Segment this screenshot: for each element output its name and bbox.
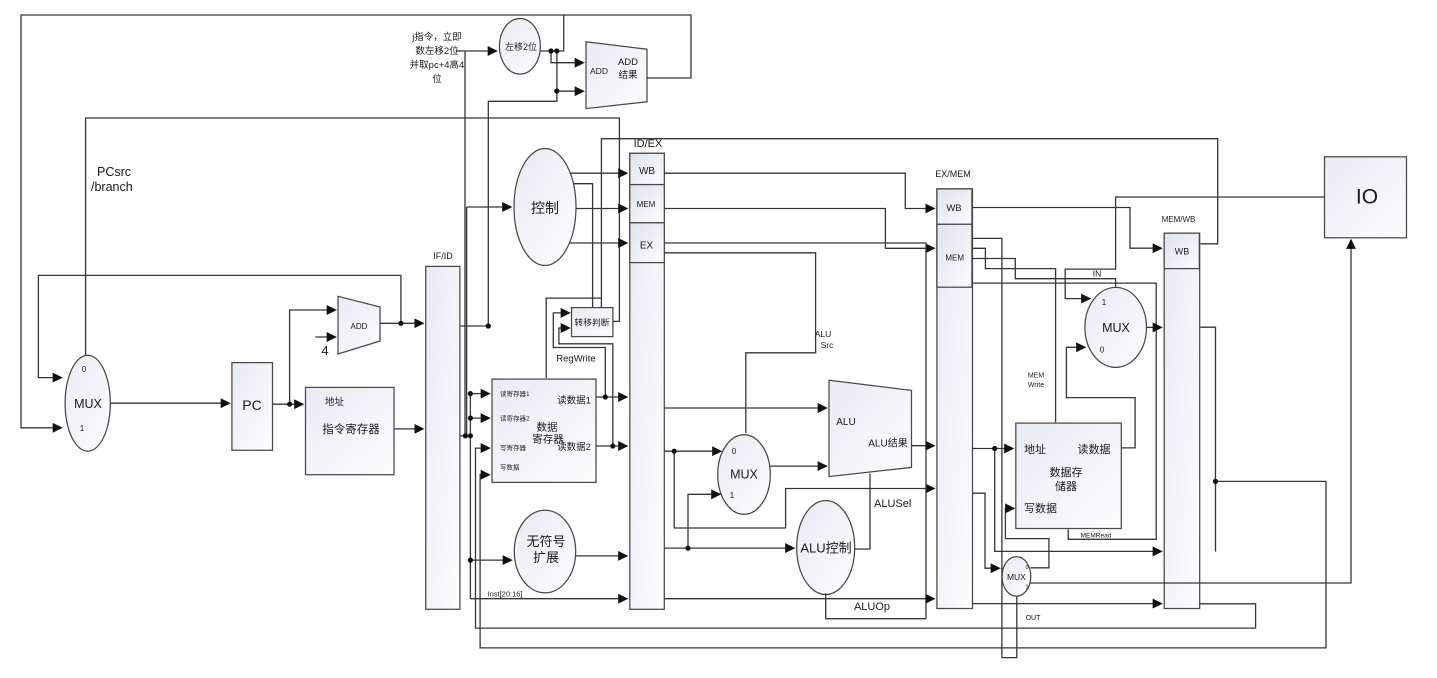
wire: PC to instruction memory (273, 403, 304, 405)
svg-text:读数据: 读数据 (1078, 442, 1111, 456)
wire: IF/ID PC+4 tap (460, 325, 488, 327)
ID/EX section EX (630, 223, 665, 263)
svg-text:并取pc+4高4: 并取pc+4高4 (410, 59, 465, 71)
wire: ALU result copy from EX/MEM to MEM/WB (995, 449, 1162, 552)
svg-text:地址: 地址 (325, 396, 345, 408)
alu ALU (829, 380, 912, 476)
wire: 左移2位 output (540, 15, 563, 51)
svg-text:IF/ID: IF/ID (433, 251, 453, 261)
EX/MEM section WB (937, 189, 972, 224)
pipeline register EX/MEM (937, 189, 973, 609)
svg-text:0: 0 (732, 447, 737, 456)
svg-text:1: 1 (1102, 298, 1107, 307)
register PC (232, 363, 273, 451)
wire: MEM bundle ID/EX to EX/MEM (664, 209, 934, 249)
alu control ALU控制 (797, 501, 855, 595)
svg-text:/branch: /branch (91, 180, 133, 194)
wire: EX/MEM ALU result copy to MEM/WB (973, 238, 1017, 657)
wire: WB feedback across top rectangle to 转移判断 (601, 139, 1217, 308)
svg-text:IO: IO (1356, 186, 1378, 209)
svg-text:MUX: MUX (1007, 572, 1026, 582)
svg-text:MUX: MUX (1102, 321, 1130, 335)
svg-text:数据: 数据 (537, 421, 558, 434)
wire: instruction memory output into IF/ID (394, 428, 423, 430)
wire: read data 1 hook into 转移判断 (553, 313, 605, 397)
register file 数据寄存器 (492, 379, 596, 482)
svg-text:ALUOp: ALUOp (854, 601, 890, 613)
mux M1 (PC source) (65, 355, 110, 451)
svg-text:数左移2位: 数左移2位 (415, 45, 459, 57)
pipeline register IF/ID (426, 266, 460, 609)
svg-text:MEMRead: MEMRead (1081, 533, 1112, 540)
wire: MemtoReg control to MUX top (972, 259, 1116, 287)
svg-text:RegWrite: RegWrite (556, 354, 595, 365)
wire: MUX output to PC (110, 402, 229, 404)
svg-text:位: 位 (432, 73, 442, 85)
ID/EX section WB (630, 153, 665, 184)
svg-text:无符号: 无符号 (526, 534, 565, 549)
EX/MEM section MEM (937, 224, 972, 287)
svg-text:ID/EX: ID/EX (634, 138, 663, 150)
wire: output MUX to IO (1030, 240, 1352, 583)
io port IO (1325, 157, 1407, 238)
wire: ALU result to data memory address (972, 448, 1013, 450)
control unit 控制 (514, 149, 576, 266)
svg-text:0: 0 (1100, 346, 1105, 355)
wire: immediate out of ID/EX to ALU控制 (664, 547, 794, 549)
svg-text:写数据: 写数据 (500, 463, 520, 472)
svg-text:j指令，立即: j指令，立即 (411, 31, 462, 43)
svg-text:OUT: OUT (1026, 615, 1042, 622)
instruction memory 指令寄存器 (306, 387, 395, 474)
svg-text:MEM: MEM (637, 200, 656, 209)
wire: ALUSrc control path down to MUX top (664, 253, 815, 433)
svg-text:1: 1 (730, 491, 735, 500)
svg-text:读数据1: 读数据1 (557, 395, 591, 407)
svg-text:PC: PC (242, 397, 261, 413)
svg-text:写寄存器: 写寄存器 (500, 443, 527, 452)
wire: IO IN path to MUX input 1 (1065, 197, 1324, 299)
svg-text:储器: 储器 (1055, 479, 1077, 493)
wire: store data into data memory (973, 493, 1000, 568)
wire: MEM/WB WB output vertical (1200, 327, 1215, 551)
wire: PC to ADD upper input (290, 310, 336, 404)
wire: EX/MEM WB bundle to MEM/WB (972, 208, 1162, 249)
wire: read data 1 out of ID/EX to ALU (664, 407, 826, 409)
wire: MUX output to MEM/WB (1147, 326, 1162, 328)
svg-text:指令寄存器: 指令寄存器 (322, 422, 380, 436)
pipeline register MEM/WB (1164, 233, 1200, 608)
wire: MUX4 tap to data memory write data (1005, 508, 1049, 567)
svg-text:EX/MEM: EX/MEM (935, 169, 971, 179)
wire: to read register 2 (470, 417, 489, 419)
shifter 左移2位 (499, 19, 540, 75)
svg-text:ALU控制: ALU控制 (800, 541, 851, 556)
wire: bottom line into MEM/WB (972, 603, 1162, 605)
wire: PCsrc/branch from 转移判断 to MUX select (86, 118, 620, 356)
wire: 控制 EX output to ID/EX (570, 242, 627, 244)
wire: constant 4 into ADD (315, 336, 335, 338)
pipeline register ID/EX (630, 153, 665, 609)
wire: store data bypass to EX/MEM (674, 451, 934, 528)
wire: WB bundle ID/EX to EX/MEM (664, 173, 934, 208)
wire: read data 2 hook into 转移判断 (559, 328, 613, 446)
wire: j-instruction branch up to 左移2位 (464, 51, 466, 436)
svg-text:Src: Src (821, 340, 835, 350)
svg-text:PCsrc: PCsrc (97, 165, 131, 179)
wire: ALU result to EX/MEM (912, 445, 935, 447)
svg-text:写数据: 写数据 (1024, 501, 1057, 515)
svg-text:ADD: ADD (590, 66, 608, 76)
wire: read data 2 out of ID/EX to MUX input 0 (664, 450, 721, 452)
svg-text:0: 0 (82, 365, 87, 374)
wire: read data 2 to ID/EX (596, 445, 627, 447)
junction dots (548, 48, 553, 53)
wire: 控制 WB output to ID/EX (570, 172, 627, 174)
wire: top wire branch to ADD upper input (551, 51, 584, 63)
wire: MemWrite control into data memory top (972, 248, 1056, 422)
svg-text:结果: 结果 (618, 69, 638, 81)
data memory 数据存储器 (1016, 423, 1122, 528)
svg-text:1: 1 (80, 424, 85, 433)
svg-text:WB: WB (639, 166, 655, 177)
wire: jump target loop (ADD result to MUX input 1) (21, 15, 691, 428)
svg-text:左移2位: 左移2位 (505, 41, 537, 52)
wire: Inst[20:16] to ID/EX (470, 598, 627, 600)
wire: branch up to MUX input 1 (688, 494, 720, 548)
wire: PC+4 feedback to MUX input 0 (38, 275, 401, 377)
wire: MUX output to ALU lower input (770, 465, 826, 467)
svg-text:读寄存器2: 读寄存器2 (500, 414, 530, 423)
wire: write-register number return from MEM/WB (476, 448, 1256, 628)
ID/EX section MEM (630, 185, 665, 223)
svg-text:WB: WB (1175, 247, 1190, 257)
svg-text:Inst[20:16]: Inst[20:16] (487, 590, 522, 599)
svg-text:4: 4 (321, 343, 328, 358)
wire: into ADD lower input (557, 90, 584, 92)
svg-text:ADD: ADD (351, 322, 368, 331)
svg-text:WB: WB (946, 203, 961, 214)
MEM/WB section WB (1164, 233, 1199, 268)
wire: bottom bundle ID/EX to EX/MEM (664, 598, 934, 600)
wire: read data 1 to ID/EX (596, 396, 627, 398)
mux M3 (memory/IN select) (1085, 287, 1147, 367)
svg-text:ALUSel: ALUSel (874, 498, 911, 510)
svg-text:ALU: ALU (836, 417, 855, 428)
wire: 控制 MEM output to ID/EX (576, 208, 627, 210)
wire: to read register 1 (470, 393, 489, 395)
svg-text:转移判断: 转移判断 (574, 317, 609, 328)
wire: EX bundle down right of ALU (664, 243, 926, 619)
wire: data memory read data zigzag to MUX input 0 (1066, 347, 1135, 448)
sign extend 无符号扩展 (514, 510, 575, 593)
svg-text:ALU结果: ALU结果 (868, 437, 907, 450)
svg-text:IN: IN (1093, 269, 1102, 279)
svg-text:读数据2: 读数据2 (557, 441, 591, 453)
svg-text:Write: Write (1028, 382, 1044, 389)
mux M2 (ALU source) (718, 435, 771, 515)
svg-text:MUX: MUX (730, 468, 758, 482)
wire: instruction to 控制 (467, 206, 511, 208)
adder ADD (PC+4) (338, 296, 380, 354)
svg-text:ALU: ALU (815, 329, 832, 339)
wire: MemRead control into data memory bottom (972, 283, 1156, 539)
wire: ALUOp drop and write-register return loop (826, 593, 926, 618)
svg-text:数据存: 数据存 (1050, 465, 1083, 479)
svg-text:MUX: MUX (74, 397, 102, 411)
adder ADD (branch target) (586, 42, 647, 109)
wire: ALUSel from ALU控制 up to ALU (855, 474, 870, 550)
wire: instruction bus vertical (469, 394, 471, 599)
wire: branch up to control input (466, 207, 468, 436)
wire: RegWrite signal down to register file (546, 298, 601, 378)
branch unit 转移判断 (572, 308, 613, 337)
wire: write-back data return to register write port (480, 475, 1326, 648)
svg-text:地址: 地址 (1024, 442, 1046, 456)
mux M4 (output select) (1002, 557, 1031, 597)
svg-text:ADD: ADD (618, 57, 638, 68)
wire: 控制 to 转移判断 (573, 184, 592, 308)
svg-text:EX: EX (640, 241, 654, 252)
svg-text:控制: 控制 (531, 200, 559, 216)
wire: sign extend output to ID/EX (576, 555, 627, 557)
svg-text:1: 1 (1025, 585, 1028, 591)
svg-text:MEM/WB: MEM/WB (1162, 215, 1196, 224)
wire: to sign extend (470, 559, 511, 561)
svg-text:MEM: MEM (1028, 373, 1045, 380)
svg-text:读寄存器1: 读寄存器1 (500, 389, 530, 398)
wire: into shifter (456, 50, 497, 52)
wire: ADD (PC+4) output into IF/ID (380, 322, 423, 324)
wire: instruction bus out of IF/ID (460, 435, 471, 437)
svg-text:0: 0 (1025, 565, 1028, 571)
wire: PC+4 from IF/ID to top ADD lower input (488, 51, 557, 326)
svg-text:MEM: MEM (945, 254, 964, 263)
svg-text:扩展: 扩展 (533, 550, 559, 565)
